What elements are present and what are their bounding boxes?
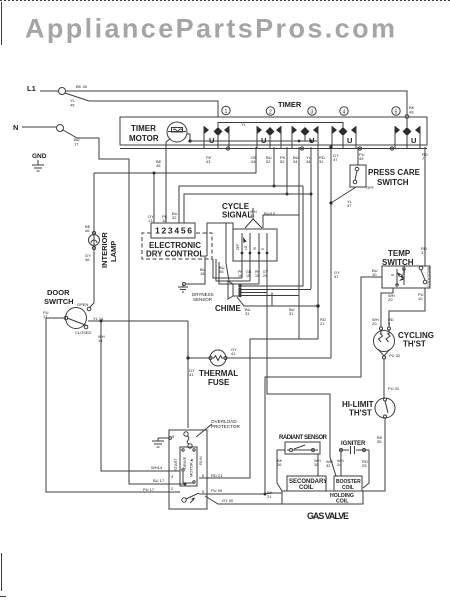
svg-text:BK 45: BK 45 bbox=[76, 84, 88, 89]
wire igniter right RD25 bbox=[363, 450, 369, 488]
cycling thermostat bbox=[374, 331, 395, 352]
temp switch box bbox=[382, 266, 430, 288]
wire radiant left bbox=[277, 450, 285, 491]
svg-text:BE46: BE46 bbox=[156, 159, 162, 168]
lamp terminal top bbox=[92, 231, 95, 234]
temp switch right contact bbox=[419, 266, 423, 270]
timer cam 5 bbox=[395, 126, 420, 149]
svg-text:OPEN: OPEN bbox=[77, 302, 88, 307]
svg-text:TEMPSWITCH: TEMPSWITCH bbox=[382, 249, 414, 267]
svg-text:U: U bbox=[347, 136, 352, 145]
svg-text:TIMER: TIMER bbox=[278, 100, 302, 109]
svg-text:PK16: PK16 bbox=[238, 270, 243, 278]
wire timer t3 to edc bus2 bbox=[286, 147, 288, 194]
svg-text:GY47: GY47 bbox=[333, 153, 339, 162]
wire radiant WH26 bbox=[317, 454, 319, 476]
svg-text:DOORSWITCH: DOORSWITCH bbox=[44, 288, 74, 306]
svg-text:COOLDOWN: COOLDOWN bbox=[427, 266, 431, 287]
chime bottom wire BU31 bbox=[237, 297, 318, 306]
chime terminals bbox=[239, 285, 241, 287]
wire x272 chime to bu31 bbox=[271, 293, 273, 307]
wire edc bus1 bbox=[179, 186, 303, 223]
svg-text:GY41: GY41 bbox=[231, 347, 237, 356]
svg-text:HOLDINGCOIL: HOLDINGCOIL bbox=[330, 493, 354, 505]
wire timer t1 GB04 to lamp run bbox=[94, 147, 256, 173]
svg-text:PK10: PK10 bbox=[162, 214, 168, 223]
svg-text:PU 32: PU 32 bbox=[389, 353, 401, 358]
wire timer YL34 to chime line2 bbox=[310, 147, 312, 289]
wire YL bus to timer 1 bbox=[89, 101, 218, 117]
svg-text:GND: GND bbox=[32, 153, 47, 160]
chime top wire bbox=[226, 223, 229, 281]
svg-text:CHIME: CHIME bbox=[215, 304, 241, 313]
wire timer PU49 to press care bbox=[357, 147, 359, 165]
svg-text:L1: L1 bbox=[27, 84, 36, 93]
timer cam 1 bbox=[204, 126, 229, 149]
svg-text:LAMP: LAMP bbox=[109, 241, 118, 262]
timer motor M1 bbox=[167, 122, 187, 142]
svg-text:RD31: RD31 bbox=[319, 155, 325, 164]
svg-text:PK15: PK15 bbox=[255, 270, 260, 278]
svg-text:9: 9 bbox=[172, 434, 175, 439]
wire dryness sensor drop bbox=[186, 256, 207, 284]
svg-text:HI-LIMITTH'ST: HI-LIMITTH'ST bbox=[342, 400, 374, 418]
svg-text:OVERLOADPROTECTOR: OVERLOADPROTECTOR bbox=[211, 419, 240, 429]
svg-text:RD 21: RD 21 bbox=[211, 473, 223, 478]
wire timer BU34 loop to chime line4 bbox=[298, 147, 300, 339]
secondary coil box bbox=[287, 476, 326, 491]
temp switch inner elements bbox=[391, 266, 406, 287]
svg-text:RD21: RD21 bbox=[320, 317, 326, 326]
svg-text:1: 1 bbox=[225, 109, 228, 115]
svg-text:U: U bbox=[309, 136, 314, 145]
overload protector bbox=[184, 432, 192, 448]
cycle element 3 bbox=[258, 233, 261, 284]
svg-text:4: 4 bbox=[343, 110, 346, 116]
wire edc t1 bbox=[153, 173, 155, 223]
svg-text:BU32: BU32 bbox=[172, 211, 178, 220]
wire motor internal bu17 bbox=[169, 483, 185, 485]
svg-text:U: U bbox=[209, 136, 214, 145]
svg-text:BU34: BU34 bbox=[293, 155, 299, 164]
svg-text:3: 3 bbox=[311, 110, 314, 116]
interior lamp bbox=[89, 235, 100, 246]
motor winding contacts bbox=[182, 449, 184, 451]
svg-text:BK55: BK55 bbox=[377, 435, 383, 444]
motor ground bbox=[152, 437, 171, 447]
cycle tent wires bbox=[245, 219, 262, 228]
wire door-yl down to motor bbox=[187, 321, 189, 428]
svg-text:PK52: PK52 bbox=[280, 155, 286, 164]
wire motor gy50 bbox=[205, 496, 282, 504]
svg-text:DRIVE: DRIVE bbox=[182, 456, 187, 469]
wire edc right y223 bbox=[207, 223, 233, 256]
border left gray fragments bbox=[0, 2, 6, 597]
svg-text:AUTO: AUTO bbox=[402, 266, 406, 275]
svg-text:WH32: WH32 bbox=[326, 459, 333, 468]
door switch bbox=[66, 308, 87, 329]
wire timer GY47 down to thermal fuse bbox=[330, 147, 332, 358]
svg-text:PRESS CARESWITCH: PRESS CARESWITCH bbox=[368, 168, 421, 187]
radiant sensor box bbox=[285, 442, 320, 454]
svg-text:BE46: BE46 bbox=[85, 224, 91, 233]
wire temp bottom WH20 bbox=[381, 288, 393, 327]
svg-text:IGNITER: IGNITER bbox=[341, 441, 366, 447]
cycle element 4 bbox=[266, 233, 269, 287]
wire motor pu99 bbox=[199, 493, 265, 495]
svg-text:LO: LO bbox=[244, 245, 248, 250]
thermal fuse bbox=[210, 350, 226, 366]
svg-text:BU52: BU52 bbox=[266, 155, 272, 164]
centrifugal switch bbox=[182, 493, 199, 503]
wire motor internal pu17 bbox=[169, 491, 180, 493]
svg-text:YL 14: YL 14 bbox=[93, 316, 104, 321]
ground dryness sensor bbox=[178, 283, 188, 293]
wire timer RD7 to temp switch bbox=[424, 147, 426, 266]
svg-text:GY 50: GY 50 bbox=[222, 498, 234, 503]
wire thermal fuse right bbox=[226, 357, 331, 359]
svg-text:HI: HI bbox=[253, 247, 257, 250]
wires cycle to edc returns bbox=[213, 259, 242, 278]
svg-text:5: 5 bbox=[395, 110, 398, 116]
timer cam 3 bbox=[292, 126, 318, 149]
chime speaker bbox=[228, 281, 233, 299]
svg-text:2: 2 bbox=[171, 486, 174, 491]
wire y339 run bbox=[207, 339, 318, 478]
terminal circle 2 bbox=[266, 107, 274, 115]
svg-text:OFF: OFF bbox=[366, 185, 375, 190]
svg-text:CYCLINGTH'ST: CYCLINGTH'ST bbox=[398, 331, 434, 349]
wire temp left BU10 bbox=[265, 277, 382, 494]
svg-text:PK43: PK43 bbox=[206, 155, 212, 164]
cycle signal box bbox=[233, 229, 277, 261]
timer box bbox=[120, 117, 427, 145]
switch L1 bbox=[59, 88, 66, 95]
wire interior lamp vertical bbox=[90, 173, 94, 307]
wire WH14 down bbox=[101, 321, 169, 471]
svg-text:PU49: PU49 bbox=[359, 152, 365, 161]
wire motor rd21 bbox=[199, 477, 207, 479]
chime line1 bbox=[240, 186, 303, 286]
wire pu99 to gasvalve bbox=[265, 493, 282, 494]
svg-text:CYCLESIGNAL: CYCLESIGNAL bbox=[222, 202, 252, 220]
wire N run bbox=[77, 138, 169, 484]
terminal circle 1 bbox=[222, 106, 230, 114]
wire N lead bbox=[22, 126, 56, 128]
svg-text:BU31: BU31 bbox=[289, 307, 295, 316]
wire edc bus2 bbox=[184, 194, 311, 223]
svg-text:BU10: BU10 bbox=[372, 268, 378, 277]
svg-text:PU 31: PU 31 bbox=[388, 386, 400, 391]
wire hilimit down BK55 bbox=[363, 418, 385, 491]
press care switch box bbox=[350, 165, 366, 187]
svg-text:INTERIOR: INTERIOR bbox=[100, 232, 109, 268]
svg-text:SECONDARYCOIL: SECONDARYCOIL bbox=[289, 479, 327, 491]
svg-text:1 2 3 4 5 6: 1 2 3 4 5 6 bbox=[155, 226, 192, 236]
svg-text:MOTOR▲: MOTOR▲ bbox=[189, 458, 194, 477]
svg-text:4: 4 bbox=[171, 474, 174, 479]
svg-text:PU10: PU10 bbox=[418, 292, 424, 301]
switch N bbox=[57, 125, 64, 132]
hi-limit thermostat bbox=[375, 398, 395, 418]
igniter bbox=[339, 446, 369, 454]
svg-text:WH14: WH14 bbox=[151, 465, 163, 470]
wire L1 lead bbox=[40, 90, 58, 92]
svg-text:OFF: OFF bbox=[236, 244, 240, 250]
svg-text:WH24: WH24 bbox=[337, 458, 344, 467]
svg-text:RUN: RUN bbox=[198, 456, 203, 465]
svg-text:RD3: RD3 bbox=[421, 246, 427, 255]
terminal bk49 on timer top bbox=[405, 115, 409, 119]
motor winding box bbox=[180, 447, 197, 486]
wire timer RD31 down bbox=[317, 147, 319, 339]
svg-text:PU 99: PU 99 bbox=[211, 488, 223, 493]
wire motor internal wh14 bbox=[169, 470, 180, 472]
svg-text:GY29: GY29 bbox=[263, 270, 269, 278]
wire door YL to thermal branch bbox=[88, 320, 188, 322]
svg-text:THERMALFUSE: THERMALFUSE bbox=[199, 369, 238, 387]
wire thermal fuse left bbox=[188, 357, 210, 359]
svg-text:GY47: GY47 bbox=[334, 270, 340, 279]
wire press care to node bbox=[331, 187, 356, 203]
svg-text:GY13: GY13 bbox=[148, 214, 154, 223]
wire temp right PU bbox=[389, 288, 425, 327]
svg-text:START: START bbox=[173, 458, 178, 471]
svg-text:WH20: WH20 bbox=[388, 293, 395, 302]
border top dotted bbox=[0, 0, 450, 2]
svg-text:BU 17: BU 17 bbox=[153, 478, 165, 483]
svg-text:GB15: GB15 bbox=[246, 270, 252, 278]
svg-text:PU 17: PU 17 bbox=[143, 487, 155, 492]
svg-text:GAS VALVE: GAS VALVE bbox=[307, 511, 349, 521]
wire branch BU15 to cycle tent bbox=[263, 215, 299, 228]
svg-text:CLOSED: CLOSED bbox=[75, 330, 92, 335]
svg-text:BK49: BK49 bbox=[409, 105, 415, 114]
svg-text:6: 6 bbox=[202, 473, 205, 478]
svg-text:BU/15: BU/15 bbox=[264, 211, 276, 216]
svg-text:AppliancePartsPros.com: AppliancePartsPros.com bbox=[25, 14, 395, 44]
chime line2 bbox=[240, 289, 311, 291]
svg-text:WH14: WH14 bbox=[98, 334, 105, 343]
svg-text:2: 2 bbox=[269, 110, 272, 116]
svg-text:E: E bbox=[261, 248, 265, 250]
timer cam 4 bbox=[332, 126, 356, 149]
svg-text:BK26: BK26 bbox=[277, 458, 283, 467]
svg-text:RADIANT SENSOR: RADIANT SENSOR bbox=[279, 435, 328, 441]
wire igniter WH24 bbox=[340, 452, 342, 477]
chime line4 bbox=[240, 295, 299, 297]
wire cycling to hilimit bbox=[383, 359, 385, 398]
terminal circle 5 bbox=[392, 107, 400, 115]
svg-text:GY46: GY46 bbox=[85, 253, 91, 262]
svg-text:YL47: YL47 bbox=[347, 199, 353, 208]
lamp terminal bottom bbox=[92, 246, 95, 249]
chime line3 bbox=[240, 293, 336, 477]
holding coil box bbox=[282, 491, 363, 504]
wire L1 bus to timer 5 bbox=[66, 91, 407, 116]
motor box bbox=[169, 430, 207, 509]
wire timer motor left down bbox=[166, 139, 171, 143]
terminal circle 4 bbox=[340, 107, 348, 115]
svg-text:U: U bbox=[261, 136, 266, 145]
svg-text:HI: HI bbox=[391, 273, 394, 277]
svg-text:N: N bbox=[13, 123, 18, 132]
wire YL cam1-cam4 bbox=[218, 123, 343, 128]
svg-text:5: 5 bbox=[202, 489, 205, 494]
wire timer motor right bbox=[187, 134, 190, 141]
svg-text:BU45: BU45 bbox=[219, 265, 225, 274]
svg-text:ELECTRONICDRY CONTROL: ELECTRONICDRY CONTROL bbox=[146, 241, 204, 259]
svg-text:RD25: RD25 bbox=[362, 459, 368, 468]
svg-text:BOOSTERCOIL: BOOSTERCOIL bbox=[336, 479, 361, 491]
timer cam 2 bbox=[257, 126, 281, 149]
cycle element 2 bbox=[249, 233, 252, 281]
cycle element 1 bbox=[241, 233, 247, 278]
svg-text:YL: YL bbox=[241, 122, 247, 127]
booster coil box bbox=[334, 476, 362, 491]
svg-text:WH20: WH20 bbox=[372, 317, 379, 326]
svg-text:TIMERMOTOR: TIMERMOTOR bbox=[129, 124, 159, 143]
wire timer t2 to edc bus bbox=[273, 147, 275, 186]
svg-text:WH26: WH26 bbox=[314, 458, 321, 467]
terminal circle 3 bbox=[308, 107, 316, 115]
svg-text:RD9: RD9 bbox=[388, 317, 394, 326]
wire PU17 door left bbox=[46, 318, 169, 492]
radiant sensor contacts bbox=[287, 445, 318, 452]
edc dashed box bbox=[142, 233, 212, 259]
svg-text:BK21: BK21 bbox=[267, 490, 273, 499]
svg-text:YL45: YL45 bbox=[70, 98, 76, 107]
edc terminal strip bbox=[151, 223, 195, 238]
svg-text:DRYNESSSENSOR: DRYNESSSENSOR bbox=[192, 292, 214, 302]
svg-text:GY41: GY41 bbox=[189, 368, 195, 377]
svg-text:U: U bbox=[411, 136, 416, 145]
svg-text:BU31: BU31 bbox=[245, 307, 251, 316]
